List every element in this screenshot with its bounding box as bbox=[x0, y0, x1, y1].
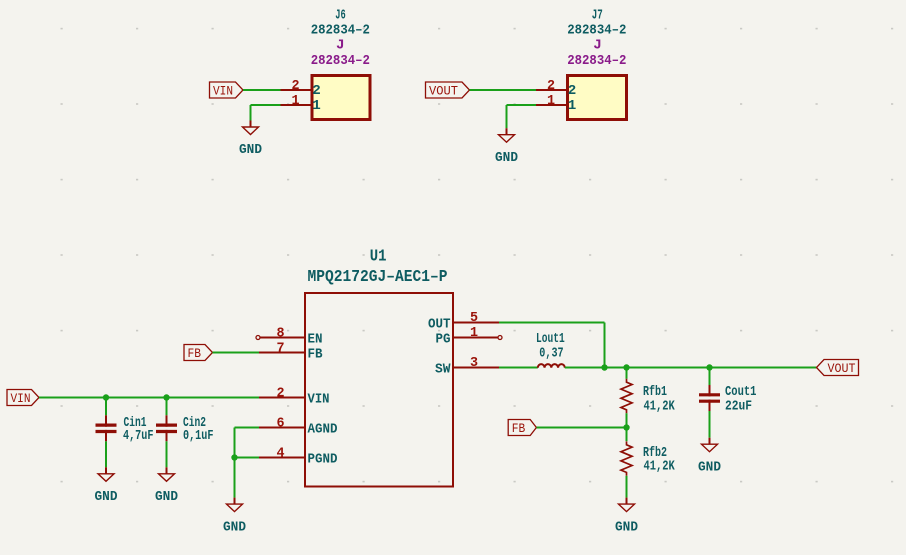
svg-text:5: 5 bbox=[470, 311, 478, 326]
svg-text:GND: GND bbox=[223, 520, 246, 536]
global label VIN (J6) bbox=[210, 82, 244, 99]
svg-text:8: 8 bbox=[277, 327, 285, 342]
wire Rfb2 bottom bbox=[626, 476, 628, 498]
J7 pin 2 bbox=[536, 79, 576, 99]
U1 pin 7 FB bbox=[259, 342, 322, 363]
J7 pin 1 bbox=[536, 94, 576, 114]
svg-text:VIN: VIN bbox=[213, 84, 233, 99]
resistor Rfb1 bbox=[621, 379, 675, 414]
svg-text:41,2K: 41,2K bbox=[644, 458, 676, 474]
J6 pin 1 bbox=[281, 94, 321, 114]
wire Lout1 to VOUT bbox=[565, 367, 817, 369]
wire VOUT to J7 pin 2 bbox=[470, 89, 537, 91]
svg-text:1: 1 bbox=[470, 326, 478, 341]
svg-text:282834–2: 282834–2 bbox=[311, 52, 370, 68]
svg-text:PGND: PGND bbox=[308, 452, 338, 468]
svg-text:2: 2 bbox=[568, 83, 577, 99]
svg-text:VIN: VIN bbox=[11, 391, 31, 406]
svg-text:1: 1 bbox=[312, 98, 321, 114]
svg-text:EN: EN bbox=[308, 332, 323, 348]
svg-text:282834–2: 282834–2 bbox=[311, 22, 370, 38]
svg-text:3: 3 bbox=[470, 356, 478, 371]
svg-text:GND: GND bbox=[155, 489, 178, 505]
capacitor Cin1 bbox=[96, 414, 154, 443]
svg-text:AGND: AGND bbox=[308, 422, 338, 438]
svg-text:GND: GND bbox=[239, 143, 262, 159]
wire VIN to J6 pin 2 bbox=[243, 89, 281, 91]
svg-text:VIN: VIN bbox=[308, 391, 330, 407]
svg-text:1: 1 bbox=[547, 94, 555, 109]
wire Cout1 top bbox=[709, 368, 711, 386]
svg-text:VOUT: VOUT bbox=[429, 84, 458, 99]
wire VIN net to U1 pin VIN bbox=[39, 397, 259, 399]
J6 pin 2 bbox=[281, 79, 321, 99]
ground at Cin2 bbox=[155, 467, 178, 505]
wire J6 pin 1 to ground bbox=[251, 105, 281, 121]
svg-text:FB: FB bbox=[188, 346, 201, 361]
svg-text:282834–2: 282834–2 bbox=[567, 22, 626, 38]
svg-text:2: 2 bbox=[547, 79, 555, 94]
svg-text:U1: U1 bbox=[370, 247, 387, 266]
wire Rfb2 top bbox=[626, 428, 628, 442]
wire Cin2 bottom bbox=[166, 441, 168, 467]
U1 pin 3 SW bbox=[435, 356, 499, 378]
node junction VIN/Cin1 bbox=[103, 394, 109, 400]
svg-text:41,2K: 41,2K bbox=[644, 398, 676, 414]
svg-text:1: 1 bbox=[568, 98, 577, 114]
svg-text:FB: FB bbox=[308, 347, 323, 363]
svg-text:0,1uF: 0,1uF bbox=[183, 427, 213, 443]
capacitor Cout1 bbox=[699, 384, 756, 414]
svg-text:282834–2: 282834–2 bbox=[567, 52, 626, 68]
svg-text:7: 7 bbox=[277, 342, 285, 357]
svg-text:J: J bbox=[593, 37, 602, 53]
node junction VIN/Cin2 bbox=[163, 394, 169, 400]
ground at Cout1 bbox=[698, 438, 721, 476]
U1 pin 8 EN (unconnected) bbox=[256, 327, 322, 348]
wire U1 OUT to SW node bbox=[499, 323, 605, 368]
svg-text:J7: J7 bbox=[592, 7, 603, 24]
ground at Cin1 bbox=[95, 467, 118, 505]
U1 pin 6 AGND bbox=[259, 417, 337, 438]
ground at J6 bbox=[239, 121, 262, 159]
wire U1 AGND to vertical bbox=[235, 428, 260, 498]
svg-text:1: 1 bbox=[292, 94, 300, 109]
U1 pin 2 VIN bbox=[259, 387, 330, 407]
wire FB to U1 pin FB bbox=[213, 352, 260, 354]
svg-text:VOUT: VOUT bbox=[828, 361, 856, 376]
wire J7 pin 1 to ground bbox=[507, 105, 537, 128]
svg-text:GND: GND bbox=[615, 520, 638, 536]
svg-text:22uF: 22uF bbox=[725, 397, 752, 414]
global label VOUT (J7) bbox=[426, 82, 470, 99]
svg-text:GND: GND bbox=[495, 150, 518, 166]
svg-text:2: 2 bbox=[292, 79, 300, 94]
wire Rfb1 bottom bbox=[626, 413, 628, 427]
global label FB (U1) bbox=[184, 345, 213, 362]
wire Cin1 bottom bbox=[105, 441, 107, 467]
svg-text:0,37: 0,37 bbox=[539, 345, 563, 361]
connector J7 body bbox=[568, 76, 627, 120]
wire FB to divider node bbox=[537, 427, 627, 429]
U1 pin 4 PGND bbox=[259, 447, 337, 468]
wire Cout1 bottom bbox=[709, 411, 711, 438]
U1 pin 1 PG (unconnected) bbox=[436, 326, 503, 348]
ground at Rfb2 bbox=[615, 498, 638, 536]
svg-text:6: 6 bbox=[277, 417, 285, 432]
wire U1 PGND bbox=[235, 457, 260, 459]
svg-text:MPQ2172GJ–AEC1–P: MPQ2172GJ–AEC1–P bbox=[308, 268, 448, 287]
svg-text:OUT: OUT bbox=[428, 317, 450, 333]
svg-text:GND: GND bbox=[698, 460, 721, 476]
wire Rfb1 top bbox=[626, 368, 628, 379]
svg-text:SW: SW bbox=[435, 362, 451, 378]
svg-text:4,7uF: 4,7uF bbox=[123, 427, 153, 443]
svg-text:J: J bbox=[336, 37, 345, 53]
global label VIN (input) bbox=[7, 390, 39, 407]
ground at J7 bbox=[495, 128, 518, 166]
node junction FB/Rfb bbox=[623, 424, 629, 430]
svg-text:GND: GND bbox=[95, 489, 118, 505]
inductor Lout1 bbox=[536, 330, 565, 367]
svg-text:PG: PG bbox=[436, 332, 451, 348]
global label VOUT (output) bbox=[817, 360, 859, 377]
svg-text:4: 4 bbox=[277, 447, 285, 462]
U1 pin 5 OUT bbox=[428, 311, 499, 333]
svg-text:FB: FB bbox=[512, 421, 525, 436]
node junction OUT/SW bbox=[601, 364, 607, 370]
IC U1 body bbox=[305, 293, 453, 487]
node junction SW/Cout1 bbox=[706, 364, 712, 370]
node junction SW/Rfb1 bbox=[623, 364, 629, 370]
wire Cin2 top bbox=[166, 398, 168, 416]
node junction AGND/PGND bbox=[231, 454, 237, 460]
wire Cin1 top bbox=[105, 398, 107, 416]
resistor Rfb2 bbox=[621, 441, 675, 475]
ground at PGND bbox=[223, 498, 246, 536]
connector J6 body bbox=[312, 76, 370, 120]
svg-text:2: 2 bbox=[277, 387, 285, 402]
wire U1 SW to Lout1 bbox=[499, 367, 538, 369]
svg-text:2: 2 bbox=[312, 83, 321, 99]
global label FB (divider) bbox=[508, 420, 536, 437]
capacitor Cin2 bbox=[156, 414, 213, 443]
